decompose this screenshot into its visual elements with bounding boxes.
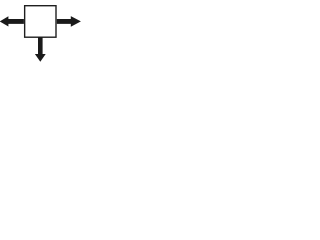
arrow left — [0, 16, 24, 26]
diagram: process box with three flow arrows (left, right, down) — [0, 0, 85, 62]
arrow down — [35, 37, 46, 61]
background — [0, 0, 85, 62]
process box — [25, 6, 56, 38]
arrow right — [57, 16, 81, 27]
